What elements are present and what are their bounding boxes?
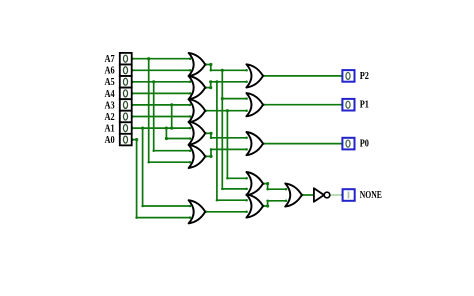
svg-text:P1: P1 <box>360 100 369 111</box>
svg-text:A0: A0 <box>105 135 115 146</box>
svg-text:A3: A3 <box>105 100 115 111</box>
svg-text:P0: P0 <box>360 139 369 150</box>
svg-text:A7: A7 <box>105 54 115 65</box>
svg-text:NONE: NONE <box>360 190 382 201</box>
svg-text:A1: A1 <box>105 124 115 135</box>
svg-text:A5: A5 <box>105 77 115 88</box>
svg-text:A2: A2 <box>105 112 115 123</box>
svg-text:A6: A6 <box>105 66 115 77</box>
svg-text:P2: P2 <box>360 71 369 82</box>
svg-text:A4: A4 <box>105 89 115 100</box>
